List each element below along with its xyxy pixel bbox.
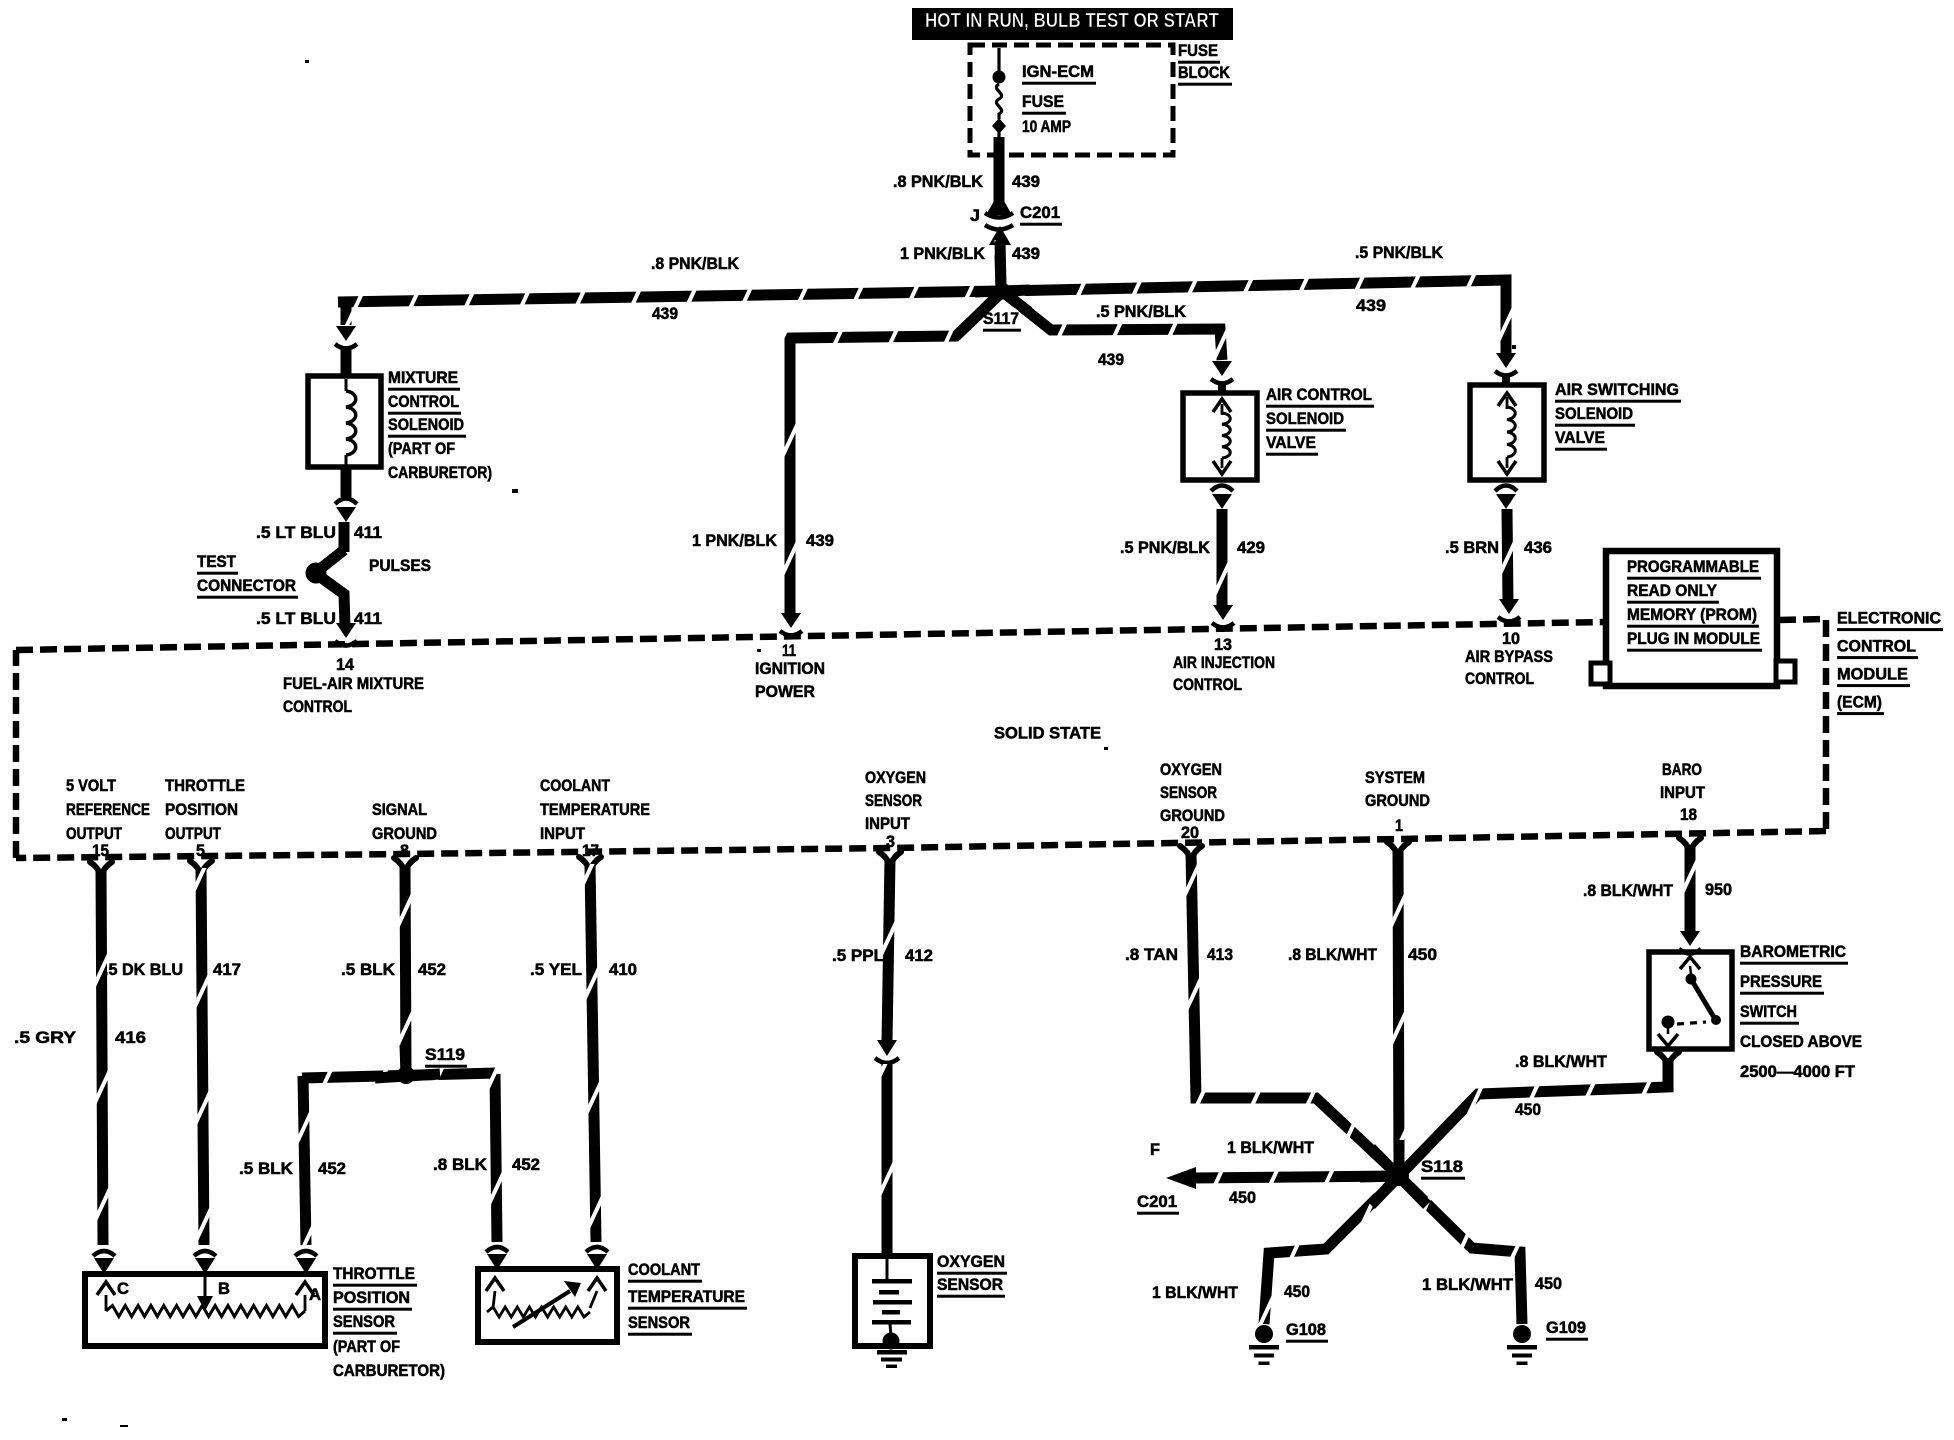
air control solenoid valve box xyxy=(1183,393,1257,480)
svg-text:450: 450 xyxy=(1515,1101,1541,1119)
splice S118 xyxy=(1389,1166,1409,1186)
coolant temperature sensor box xyxy=(478,1269,617,1342)
svg-text:TEMPERATURE: TEMPERATURE xyxy=(540,801,650,819)
wire .8 TAN 413 xyxy=(1191,853,1399,1176)
svg-text:CONTROL: CONTROL xyxy=(1465,670,1534,688)
svg-text:SENSOR: SENSOR xyxy=(333,1313,395,1331)
svg-text:COOLANT: COOLANT xyxy=(628,1261,700,1279)
svg-text:429: 429 xyxy=(1237,539,1265,557)
svg-text:2500—4000 FT: 2500—4000 FT xyxy=(1740,1063,1855,1081)
svg-text:.5 BLK: .5 BLK xyxy=(239,1160,293,1178)
svg-text:439: 439 xyxy=(1356,297,1386,315)
svg-text:1: 1 xyxy=(1395,817,1403,835)
svg-text:CONTROL: CONTROL xyxy=(1837,637,1916,656)
TPS resistor xyxy=(105,1295,108,1311)
svg-text:THROTTLE: THROTTLE xyxy=(333,1265,415,1283)
solenoid box mixture control xyxy=(308,376,381,467)
svg-text:.8 BLK/WHT: .8 BLK/WHT xyxy=(1515,1053,1607,1071)
ground G108 xyxy=(1255,1325,1273,1343)
oxygen sensor box xyxy=(855,1256,930,1346)
splice S119 xyxy=(397,1066,415,1084)
svg-text:IGN-ECM: IGN-ECM xyxy=(1022,63,1094,81)
connector C201 top half xyxy=(986,201,1012,215)
svg-text:3: 3 xyxy=(886,833,895,851)
svg-text:.8 TAN: .8 TAN xyxy=(1125,946,1178,964)
svg-text:20: 20 xyxy=(1181,824,1199,842)
svg-text:TEST: TEST xyxy=(197,553,236,571)
svg-text:CONTROL: CONTROL xyxy=(1173,676,1242,694)
svg-text:OUTPUT: OUTPUT xyxy=(165,825,221,843)
svg-text:410: 410 xyxy=(609,961,637,979)
svg-text:5 VOLT: 5 VOLT xyxy=(66,777,116,795)
svg-text:CONTROL: CONTROL xyxy=(388,393,459,411)
splice S117 junction solid xyxy=(975,290,1030,292)
svg-text:10 AMP: 10 AMP xyxy=(1022,118,1071,136)
terminal pin 1 xyxy=(1387,842,1409,856)
svg-text:450: 450 xyxy=(1229,1189,1256,1207)
svg-text:.8 BLK/WHT: .8 BLK/WHT xyxy=(1583,882,1673,900)
svg-text:(PART OF: (PART OF xyxy=(333,1338,400,1356)
svg-text:BLOCK: BLOCK xyxy=(1178,64,1230,82)
svg-text:MIXTURE: MIXTURE xyxy=(388,369,458,387)
svg-text:14: 14 xyxy=(336,656,355,674)
svg-text:AIR SWITCHING: AIR SWITCHING xyxy=(1555,381,1679,399)
wire mixture solenoid bottom xyxy=(341,467,352,497)
svg-text:INPUT: INPUT xyxy=(540,825,585,843)
arrowhead to C201 F xyxy=(1166,1167,1196,1189)
wire .8 BLK/WHT 950 xyxy=(1685,845,1696,936)
svg-text:C201: C201 xyxy=(1137,1193,1177,1211)
svg-text:POSITION: POSITION xyxy=(165,801,238,819)
svg-text:.5 PNK/BLK: .5 PNK/BLK xyxy=(1096,303,1186,321)
svg-text:SENSOR: SENSOR xyxy=(937,1276,1003,1294)
terminal at coolant sensor right xyxy=(586,1247,608,1252)
wire S118 to ground G108 xyxy=(1264,1176,1399,1324)
wire .5 GRY 416 xyxy=(101,869,103,1245)
svg-text:452: 452 xyxy=(418,961,446,979)
svg-text:411: 411 xyxy=(354,524,382,542)
svg-text:MODULE: MODULE xyxy=(1837,665,1908,684)
svg-text:.5 LT BLU: .5 LT BLU xyxy=(256,524,336,542)
air switching solenoid valve box xyxy=(1470,385,1544,480)
svg-text:.8 PNK/BLK: .8 PNK/BLK xyxy=(893,173,983,191)
svg-text:G108: G108 xyxy=(1286,1321,1326,1339)
terminal at TPS A xyxy=(295,1251,317,1256)
terminal pin 8 xyxy=(394,858,416,872)
barometric pressure switch box xyxy=(1649,952,1732,1049)
svg-text:452: 452 xyxy=(318,1160,346,1178)
air switching valve coil and arrows xyxy=(1498,393,1516,406)
svg-text:8: 8 xyxy=(400,842,409,860)
svg-text:VALVE: VALVE xyxy=(1555,429,1605,447)
PROM box right foot xyxy=(1776,661,1795,682)
svg-text:FUSE: FUSE xyxy=(1178,42,1218,60)
svg-text:436: 436 xyxy=(1524,539,1552,557)
wire .5 BLK 452 signal ground xyxy=(405,865,406,1070)
svg-text:BARO: BARO xyxy=(1662,761,1702,779)
svg-text:SENSOR: SENSOR xyxy=(1160,784,1217,802)
baro switch internals xyxy=(1680,957,1700,969)
svg-text:PROGRAMMABLE: PROGRAMMABLE xyxy=(1627,558,1759,576)
terminal pin 15 xyxy=(90,862,112,876)
svg-text:CONTROL: CONTROL xyxy=(283,698,352,716)
svg-text:13: 13 xyxy=(1214,636,1232,654)
oxygen sensor ground bars xyxy=(877,1350,907,1355)
svg-text:.5 PPL: .5 PPL xyxy=(832,947,884,965)
svg-text:HOT IN RUN, BULB TEST OR START: HOT IN RUN, BULB TEST OR START xyxy=(925,9,1219,32)
svg-text:450: 450 xyxy=(1535,1275,1562,1293)
fuse terminal diamond xyxy=(992,118,1006,134)
svg-text:.5 BRN: .5 BRN xyxy=(1445,539,1499,557)
svg-text:CARBURETOR): CARBURETOR) xyxy=(388,464,492,482)
terminal pin 20 xyxy=(1180,846,1202,860)
svg-text:950: 950 xyxy=(1705,881,1732,899)
fuse block dashed box xyxy=(970,45,1173,155)
svg-text:416: 416 xyxy=(115,1029,146,1047)
svg-text:450: 450 xyxy=(1284,1283,1310,1301)
svg-text:(ECM): (ECM) xyxy=(1837,693,1882,712)
svg-text:.8 BLK: .8 BLK xyxy=(433,1156,487,1174)
svg-text:15: 15 xyxy=(92,842,109,860)
test connector zigzag wire xyxy=(315,550,345,628)
svg-text:C: C xyxy=(117,1280,129,1298)
fuse terminal dot xyxy=(993,71,1006,84)
svg-text:SWITCH: SWITCH xyxy=(1740,1003,1797,1021)
wire baro switch to S118 xyxy=(1399,1058,1668,1176)
terminal pin 13 xyxy=(1213,605,1233,620)
svg-text:SOLENOID: SOLENOID xyxy=(388,416,464,434)
svg-text:.5 LT BLU: .5 LT BLU xyxy=(256,610,336,628)
svg-text:READ ONLY: READ ONLY xyxy=(1627,582,1717,600)
PROM box xyxy=(1606,551,1777,686)
svg-text:POSITION: POSITION xyxy=(333,1289,410,1307)
svg-text:B: B xyxy=(218,1280,230,1298)
terminal pin 14 xyxy=(336,623,356,638)
svg-text:11: 11 xyxy=(782,642,796,660)
svg-text:412: 412 xyxy=(905,947,933,965)
wire 439 bus left of S117 xyxy=(338,291,1002,302)
svg-text:417: 417 xyxy=(213,961,241,979)
wire fuse to bottom of fuse block xyxy=(997,130,1000,140)
terminal pin 17 xyxy=(579,857,601,871)
terminal pin 11 xyxy=(781,613,801,628)
svg-text:FUSE: FUSE xyxy=(1022,93,1064,111)
wire .5 BRN 436 xyxy=(1507,509,1508,604)
connector below mixture solenoid xyxy=(335,499,357,505)
svg-text:1 BLK/WHT: 1 BLK/WHT xyxy=(1227,1139,1314,1157)
svg-text:OXYGEN: OXYGEN xyxy=(1160,761,1222,779)
svg-text:OUTPUT: OUTPUT xyxy=(66,825,122,843)
svg-text:450: 450 xyxy=(1408,946,1437,964)
svg-text:AIR BYPASS: AIR BYPASS xyxy=(1465,648,1553,666)
splice S118 junction solid xyxy=(1394,1140,1405,1176)
svg-text:SENSOR: SENSOR xyxy=(865,792,922,810)
terminal pin 3 xyxy=(879,852,901,866)
svg-text:.5 YEL: .5 YEL xyxy=(530,961,582,979)
svg-text:.5 BLK: .5 BLK xyxy=(341,961,395,979)
svg-text:IGNITION: IGNITION xyxy=(755,660,825,678)
svg-text:AIR CONTROL: AIR CONTROL xyxy=(1266,386,1372,404)
terminal pin 18 xyxy=(1679,838,1701,852)
svg-text:OXYGEN: OXYGEN xyxy=(937,1253,1005,1271)
svg-text:CARBURETOR): CARBURETOR) xyxy=(333,1362,445,1380)
terminal pin 5 xyxy=(190,861,212,875)
svg-text:G109: G109 xyxy=(1546,1319,1586,1337)
svg-text:ELECTRONIC: ELECTRONIC xyxy=(1837,609,1941,628)
air control valve coil and arrows xyxy=(1213,399,1231,412)
wire 439 bus right of S117 down to air switching solenoid xyxy=(1002,280,1506,360)
mixture solenoid coil xyxy=(345,379,348,391)
splice S119 junction solid xyxy=(375,1074,440,1078)
ECM dashed border right edge xyxy=(1779,619,1826,831)
svg-text:10: 10 xyxy=(1502,630,1520,648)
svg-text:.5 PNK/BLK: .5 PNK/BLK xyxy=(1355,244,1443,262)
svg-text:SENSOR: SENSOR xyxy=(628,1314,690,1332)
wire 1 BLK/WHT to connector C201 F xyxy=(1194,1176,1399,1178)
svg-text:.5 GRY: .5 GRY xyxy=(14,1029,76,1047)
svg-text:SYSTEM: SYSTEM xyxy=(1365,769,1425,787)
svg-text:S117: S117 xyxy=(983,310,1019,328)
wire .5 PPL 412 upper xyxy=(887,859,890,1042)
ECM dashed border bottom edge xyxy=(16,831,1826,858)
TPS terminal C xyxy=(97,1282,115,1295)
svg-text:THROTTLE: THROTTLE xyxy=(165,777,245,795)
svg-text:.8 PNK/BLK: .8 PNK/BLK xyxy=(651,255,739,273)
TPS terminal B xyxy=(204,1277,207,1297)
svg-text:S118: S118 xyxy=(1421,1158,1463,1176)
coolant sensor internals xyxy=(486,1278,504,1291)
terminal at air control valve top xyxy=(1212,361,1232,376)
wire .5 LT BLU upper xyxy=(339,522,350,552)
wire bus drop to mixture control solenoid xyxy=(341,298,352,325)
svg-text:TEMPERATURE: TEMPERATURE xyxy=(628,1288,745,1306)
terminal pin 10 xyxy=(1499,599,1519,614)
test connector blob xyxy=(306,563,327,584)
svg-text:BAROMETRIC: BAROMETRIC xyxy=(1740,943,1846,961)
PROM box left foot xyxy=(1591,663,1610,684)
svg-text:OXYGEN: OXYGEN xyxy=(865,769,926,787)
svg-text:413: 413 xyxy=(1207,946,1233,964)
svg-text:MEMORY (PROM): MEMORY (PROM) xyxy=(1627,606,1757,624)
svg-text:GROUND: GROUND xyxy=(372,825,437,843)
wire .5 PPL lower to oxygen sensor xyxy=(882,1064,893,1256)
terminal at baro switch top xyxy=(1680,931,1700,946)
splice S119 bar xyxy=(302,1073,497,1078)
svg-text:18: 18 xyxy=(1680,806,1697,824)
svg-text:POWER: POWER xyxy=(755,683,815,701)
terminal at coolant sensor left xyxy=(486,1247,508,1252)
svg-text:FUEL-AIR MIXTURE: FUEL-AIR MIXTURE xyxy=(283,675,424,693)
wire inside fuse block xyxy=(997,48,1000,72)
svg-text:GROUND: GROUND xyxy=(1160,807,1225,825)
svg-text:5: 5 xyxy=(196,842,205,860)
wire S119 right leg to coolant sensor xyxy=(495,1074,497,1242)
svg-text:CONNECTOR: CONNECTOR xyxy=(197,577,296,595)
connector C201 bottom half xyxy=(985,225,1013,230)
svg-text:PRESSURE: PRESSURE xyxy=(1740,973,1822,991)
ECM dashed border top edge xyxy=(16,622,1604,650)
svg-text:S119: S119 xyxy=(425,1046,465,1064)
svg-text:439: 439 xyxy=(1098,351,1124,369)
wire branch S117 to ignition power pin 11 xyxy=(790,292,1002,618)
terminal below baro switch xyxy=(1657,1052,1679,1066)
svg-text:A: A xyxy=(309,1286,321,1304)
wire .5 PNK/BLK 429 xyxy=(1217,509,1228,610)
svg-text:411: 411 xyxy=(354,610,382,628)
svg-text:F: F xyxy=(1150,1141,1160,1159)
fuse IGN-ECM element xyxy=(996,84,1001,119)
svg-text:PULSES: PULSES xyxy=(369,557,431,575)
svg-text:452: 452 xyxy=(512,1156,540,1174)
scan speckles xyxy=(305,60,309,63)
svg-text:PLUG IN MODULE: PLUG IN MODULE xyxy=(1627,630,1760,648)
svg-text:REFERENCE: REFERENCE xyxy=(66,801,150,819)
svg-text:(PART OF: (PART OF xyxy=(388,440,455,458)
svg-text:GROUND: GROUND xyxy=(1365,792,1430,810)
svg-text:COOLANT: COOLANT xyxy=(540,777,610,795)
TPS terminal A xyxy=(296,1282,314,1295)
oxygen sensor battery symbol xyxy=(886,1259,889,1281)
svg-text:INPUT: INPUT xyxy=(1660,784,1705,802)
wire 439 .8 PNK/BLK fuse block to C201 xyxy=(994,137,1005,206)
svg-text:.5 PNK/BLK: .5 PNK/BLK xyxy=(1120,539,1210,557)
svg-text:1 PNK/BLK: 1 PNK/BLK xyxy=(692,532,777,550)
wire 439 1 PNK/BLK C201 to S117 xyxy=(1000,240,1001,288)
svg-text:CLOSED ABOVE: CLOSED ABOVE xyxy=(1740,1033,1862,1051)
oxygen sensor ground dot xyxy=(883,1333,900,1350)
wire branch S117 to air control solenoid valve xyxy=(1003,292,1222,360)
svg-text:AIR INJECTION: AIR INJECTION xyxy=(1173,654,1275,672)
terminal at TPS C xyxy=(93,1251,115,1256)
connector below air control valve xyxy=(1211,486,1233,492)
svg-text:439: 439 xyxy=(1012,173,1040,191)
svg-text:C201: C201 xyxy=(1020,204,1060,222)
terminal at air switching valve top xyxy=(1496,353,1516,368)
terminal at mixture solenoid top xyxy=(336,326,356,341)
svg-text:SOLENOID: SOLENOID xyxy=(1555,405,1633,423)
svg-text:439: 439 xyxy=(652,305,678,323)
connector below air switching valve xyxy=(1495,486,1517,492)
svg-text:1 BLK/WHT: 1 BLK/WHT xyxy=(1152,1284,1238,1302)
ECM dashed border left edge xyxy=(13,650,20,858)
svg-text:J: J xyxy=(970,207,980,225)
splice S117 xyxy=(994,283,1011,300)
wire .5 DK BLU 417 xyxy=(201,868,204,1245)
svg-text:439: 439 xyxy=(806,532,834,550)
svg-text:1 BLK/WHT: 1 BLK/WHT xyxy=(1422,1276,1513,1294)
svg-text:SIGNAL: SIGNAL xyxy=(372,801,427,819)
svg-text:.5 DK BLU: .5 DK BLU xyxy=(104,961,183,979)
svg-text:439: 439 xyxy=(1012,245,1040,263)
inline connector on oxygen sensor wire xyxy=(877,1040,897,1056)
terminal at TPS B xyxy=(194,1251,216,1256)
svg-text:.8 BLK/WHT: .8 BLK/WHT xyxy=(1288,946,1377,964)
wire S118 to ground G109 xyxy=(1399,1176,1522,1324)
throttle position sensor box xyxy=(85,1274,325,1346)
wire .5 YEL 410 xyxy=(590,864,596,1242)
power feed banner HOT IN RUN xyxy=(912,8,1233,40)
svg-text:1 PNK/BLK: 1 PNK/BLK xyxy=(900,245,985,263)
svg-text:SOLID STATE: SOLID STATE xyxy=(994,724,1101,743)
ground G109 xyxy=(1513,1325,1531,1343)
svg-text:INPUT: INPUT xyxy=(865,815,910,833)
wire .8 BLK/WHT 450 system ground xyxy=(1398,849,1399,1176)
svg-text:SOLENOID: SOLENOID xyxy=(1266,410,1344,428)
svg-text:VALVE: VALVE xyxy=(1266,434,1316,452)
wire S119 left leg to TPS A xyxy=(303,1076,306,1245)
